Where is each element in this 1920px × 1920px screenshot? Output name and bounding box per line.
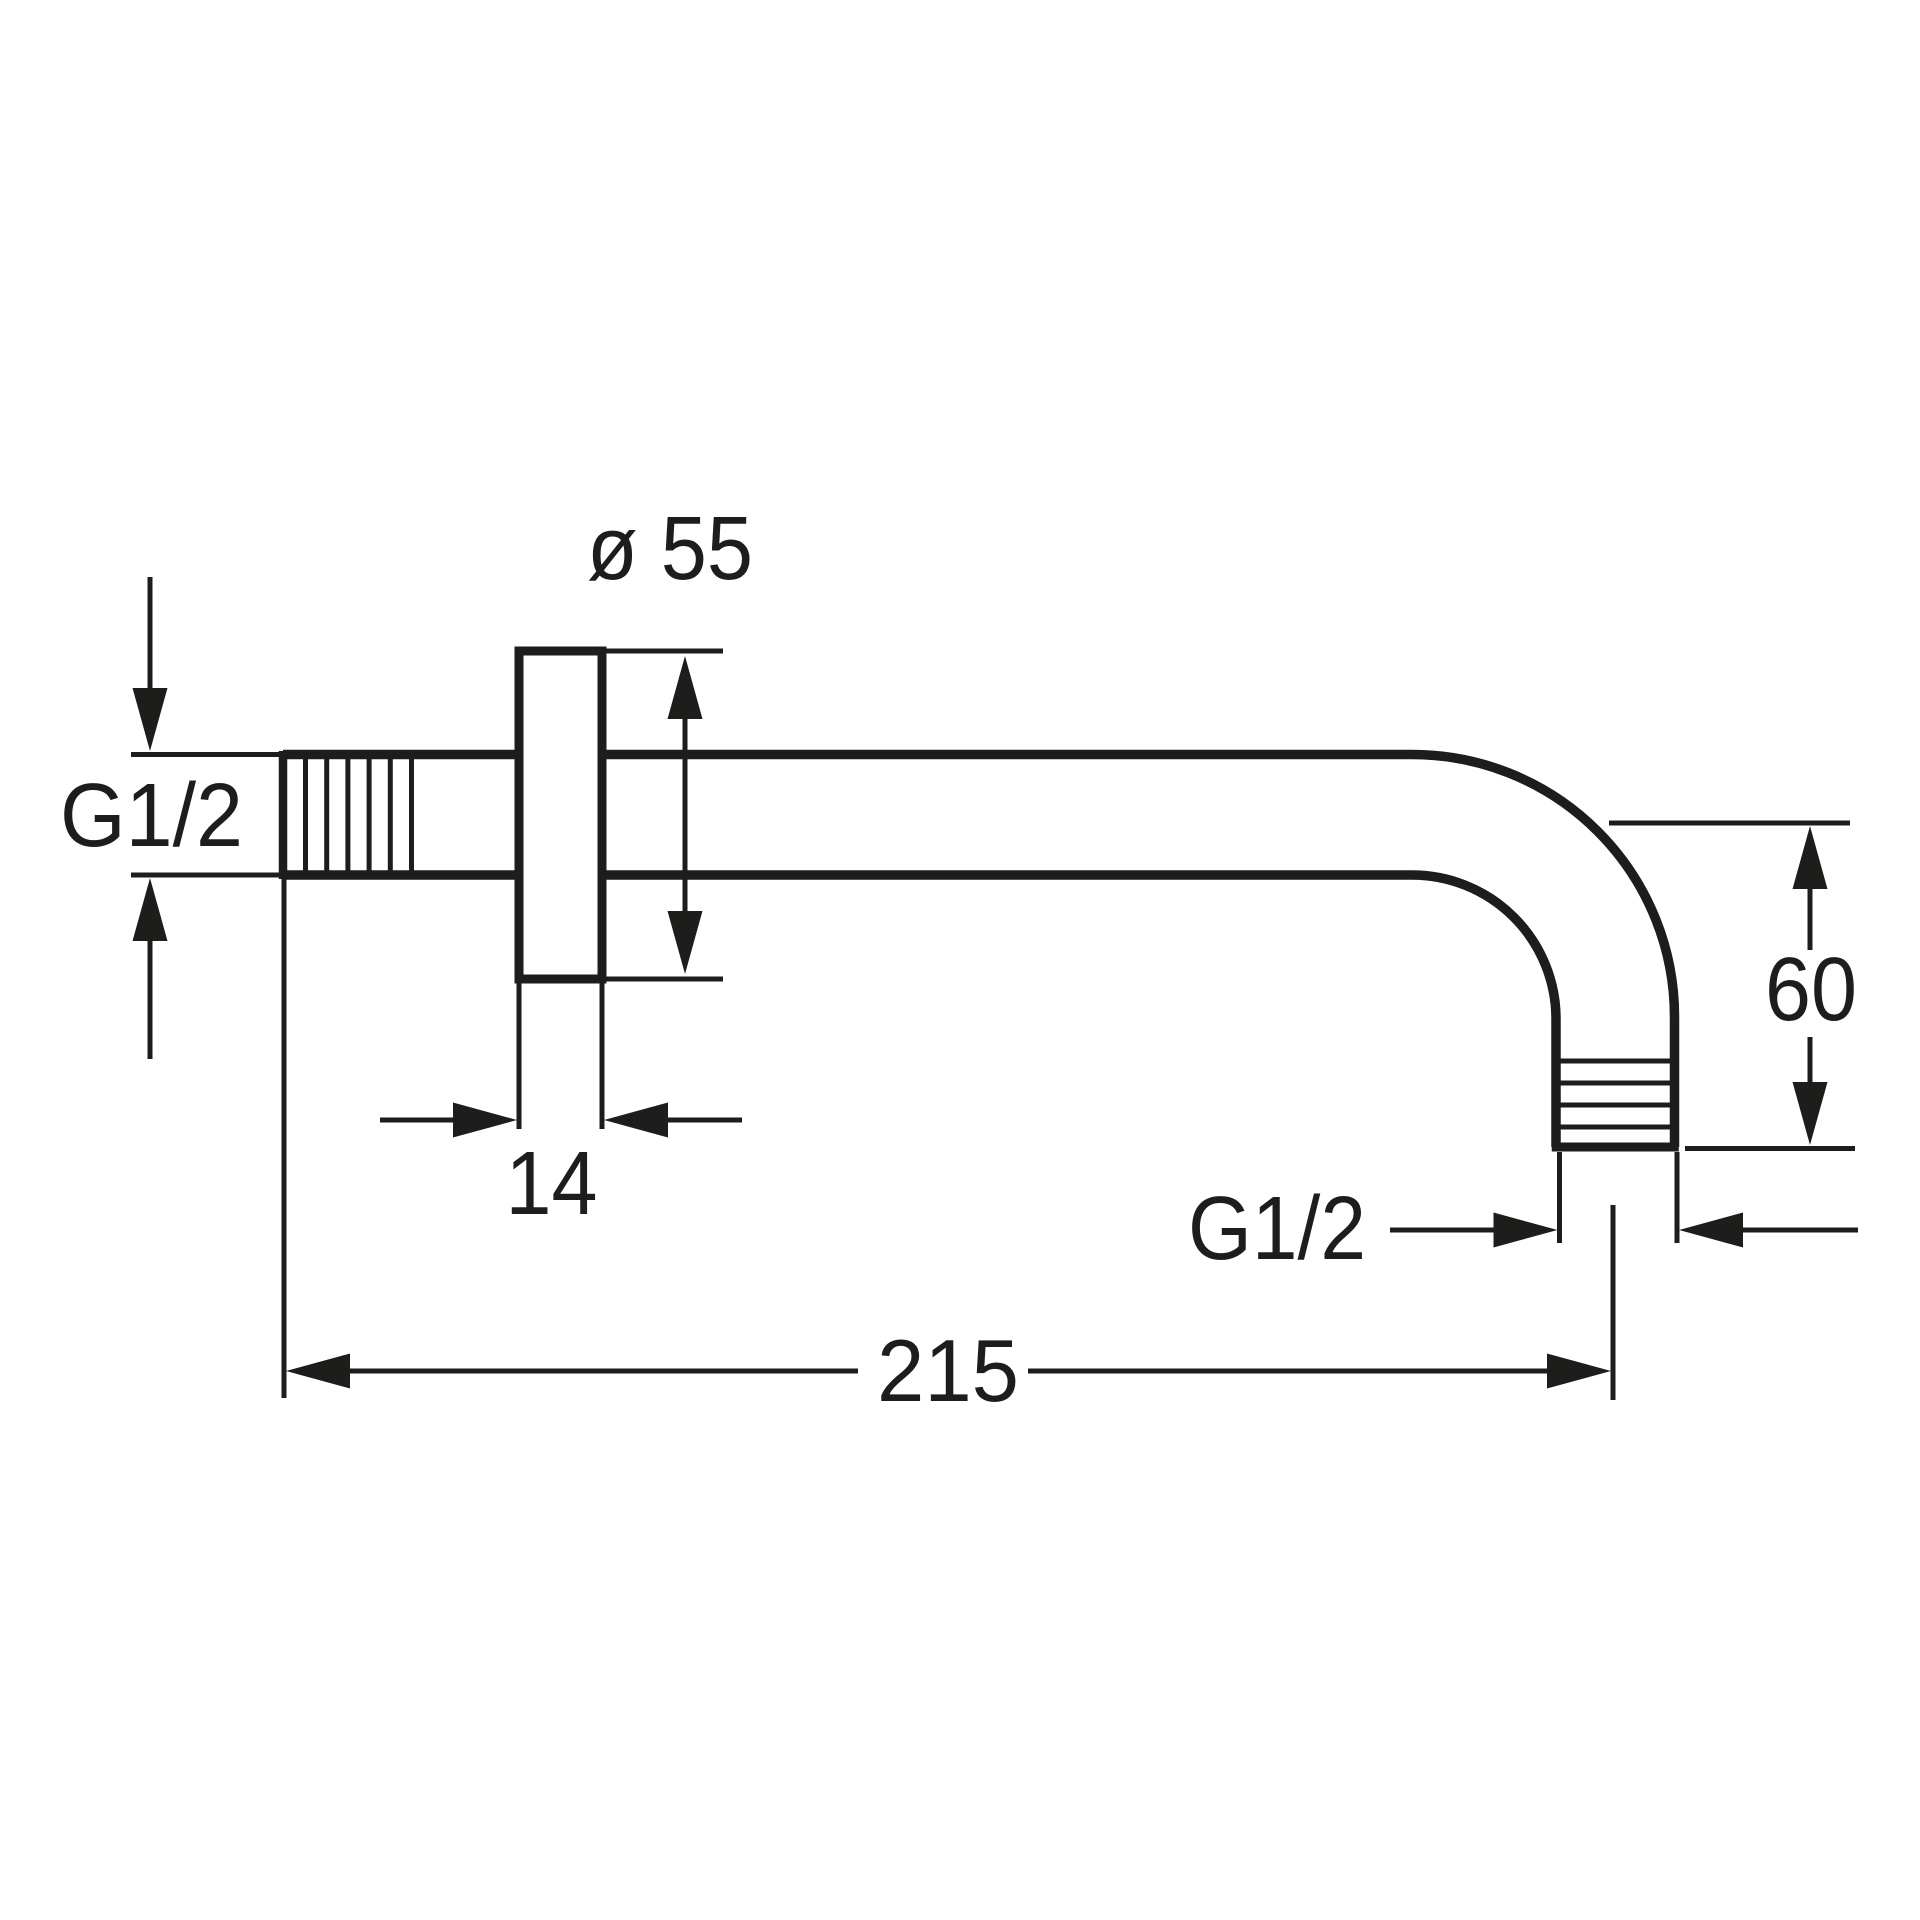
- wall flange (escutcheon), white filled, covers pipe: [519, 651, 602, 979]
- extension line: 215 right (outlet centre line): [1611, 1205, 1616, 1400]
- svg-text:215: 215: [877, 1321, 1019, 1420]
- extension line: 60 bottom (pipe end level): [1685, 1146, 1855, 1151]
- leader arrow: bottom G1/2 (points right at outlet): [1390, 1213, 1558, 1248]
- dimension line 215 left part with arrow (points left): [286, 1354, 858, 1389]
- pipe left end cap: [279, 751, 288, 879]
- svg-text:60: 60: [1765, 940, 1857, 1040]
- dimension line 60 upper segment with up arrow: [1793, 826, 1828, 950]
- svg-text:G1/2: G1/2: [1188, 1179, 1366, 1279]
- extension line: below outlet right (for bottom G1/2): [1675, 1152, 1680, 1243]
- dimension arrow: left G1/2 lower (points up): [133, 878, 168, 1059]
- arrow: bottom G1/2 right side (points left at outlet): [1679, 1213, 1858, 1248]
- shower arm inner outline (bottom edge, inner bend, left edge of drop): [283, 875, 1556, 1147]
- thread hatch left (G1/2 inlet): [306, 756, 412, 873]
- extension line: below flange left (for 14): [517, 983, 522, 1129]
- extension line: 215 left (below inlet end): [282, 877, 287, 1398]
- extension line: flange top (for ø55): [606, 649, 723, 654]
- extension line: below flange right (for 14): [600, 983, 605, 1129]
- extension line: 60 top (outlet side of bend): [1609, 821, 1850, 826]
- extension line: left G1/2 bottom: [131, 873, 281, 878]
- extension line: flange bottom (for ø55): [606, 977, 723, 982]
- thread hatch bottom (G1/2 outlet): [1558, 1061, 1673, 1127]
- svg-text:ø 55: ø 55: [587, 499, 753, 599]
- extension line: left G1/2 top: [131, 752, 281, 757]
- svg-text:G1/2: G1/2: [60, 766, 243, 866]
- dimension line 60 lower segment with down arrow: [1793, 1037, 1828, 1145]
- pipe bottom outlet end cap: [1552, 1143, 1679, 1152]
- shower arm outer outline (top edge, bend, right edge): [283, 754, 1675, 1147]
- svg-text:14: 14: [506, 1134, 598, 1234]
- extension line: below outlet left (for bottom G1/2): [1557, 1152, 1562, 1243]
- dimension line ø55 with arrows (inside flange height): [668, 656, 703, 974]
- dimension arrow: left G1/2 upper (points down): [133, 577, 168, 751]
- dimension arrow: 14 right (points left): [604, 1103, 742, 1138]
- dimension line 215 right part with arrow (points right): [1028, 1354, 1611, 1389]
- dimension arrow: 14 left (points right): [380, 1103, 517, 1138]
